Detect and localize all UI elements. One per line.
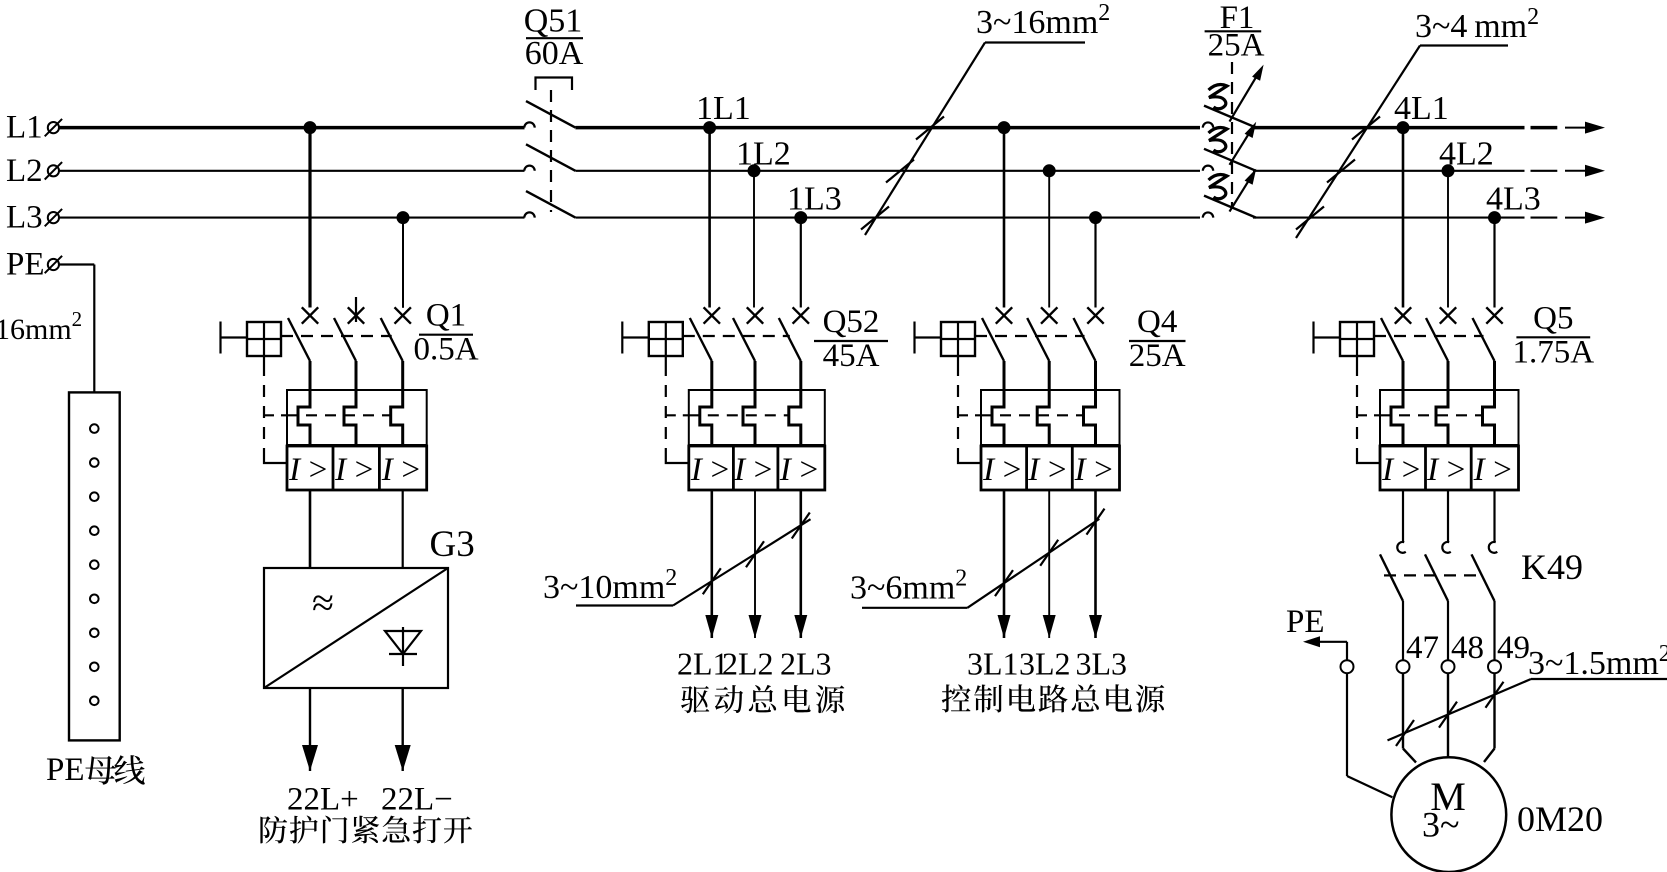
svg-text:PE: PE — [1286, 604, 1325, 640]
svg-text:Q4: Q4 — [1137, 304, 1177, 340]
svg-text:2L1: 2L1 — [677, 646, 729, 682]
svg-text:3L1: 3L1 — [967, 646, 1019, 682]
svg-text:I >: I > — [334, 452, 375, 488]
svg-text:I >: I > — [1381, 452, 1422, 488]
svg-text:Q1: Q1 — [426, 298, 466, 334]
svg-text:3~6mm2: 3~6mm2 — [850, 566, 967, 607]
svg-text:0M20: 0M20 — [1517, 799, 1603, 839]
svg-text:1L1: 1L1 — [696, 90, 751, 127]
svg-text:3L2: 3L2 — [1019, 646, 1071, 682]
svg-text:4L2: 4L2 — [1439, 136, 1494, 173]
svg-text:PE: PE — [6, 247, 45, 283]
svg-text:16mm2: 16mm2 — [0, 307, 82, 346]
svg-text:L3: L3 — [6, 200, 43, 236]
svg-text:≈: ≈ — [312, 580, 334, 625]
svg-text:22L−: 22L− — [381, 782, 453, 818]
svg-text:2L3: 2L3 — [780, 646, 832, 682]
svg-text:48: 48 — [1451, 630, 1484, 666]
svg-text:60A: 60A — [525, 35, 584, 72]
svg-text:25A: 25A — [1129, 338, 1186, 374]
svg-text:I >: I > — [288, 452, 329, 488]
svg-text:I >: I > — [381, 452, 422, 488]
svg-text:1L2: 1L2 — [736, 136, 791, 173]
svg-text:L1: L1 — [6, 110, 43, 146]
svg-text:0.5A: 0.5A — [413, 332, 478, 368]
svg-text:3L3: 3L3 — [1076, 646, 1128, 682]
svg-text:PE: PE — [46, 752, 85, 788]
svg-text:25A: 25A — [1208, 28, 1265, 64]
svg-text:L2: L2 — [6, 153, 43, 189]
svg-text:3~4 mm2: 3~4 mm2 — [1415, 4, 1539, 45]
svg-text:47: 47 — [1406, 630, 1439, 666]
svg-text:Q5: Q5 — [1533, 300, 1573, 336]
svg-text:Q52: Q52 — [823, 304, 880, 340]
svg-text:45A: 45A — [823, 338, 880, 374]
svg-text:I >: I > — [690, 452, 731, 488]
svg-text:3~1.5mm2: 3~1.5mm2 — [1528, 641, 1667, 682]
svg-text:1.75A: 1.75A — [1513, 334, 1595, 370]
svg-text:I >: I > — [779, 452, 820, 488]
svg-text:2L2: 2L2 — [722, 646, 774, 682]
svg-text:I >: I > — [1074, 452, 1115, 488]
svg-text:3~10mm2: 3~10mm2 — [543, 565, 677, 606]
svg-text:22L+: 22L+ — [287, 782, 359, 818]
svg-text:I >: I > — [1027, 452, 1068, 488]
svg-text:4L3: 4L3 — [1486, 181, 1541, 218]
svg-text:G3: G3 — [430, 524, 475, 565]
svg-text:I >: I > — [982, 452, 1023, 488]
svg-text:K49: K49 — [1521, 547, 1583, 587]
svg-text:1L3: 1L3 — [787, 181, 842, 218]
svg-text:49: 49 — [1497, 630, 1530, 666]
svg-text:I >: I > — [1426, 452, 1467, 488]
svg-text:I >: I > — [733, 452, 774, 488]
svg-text:4L1: 4L1 — [1394, 90, 1449, 127]
svg-text:3~16mm2: 3~16mm2 — [976, 0, 1110, 41]
svg-text:I >: I > — [1473, 452, 1514, 488]
svg-text:3~: 3~ — [1422, 805, 1459, 845]
